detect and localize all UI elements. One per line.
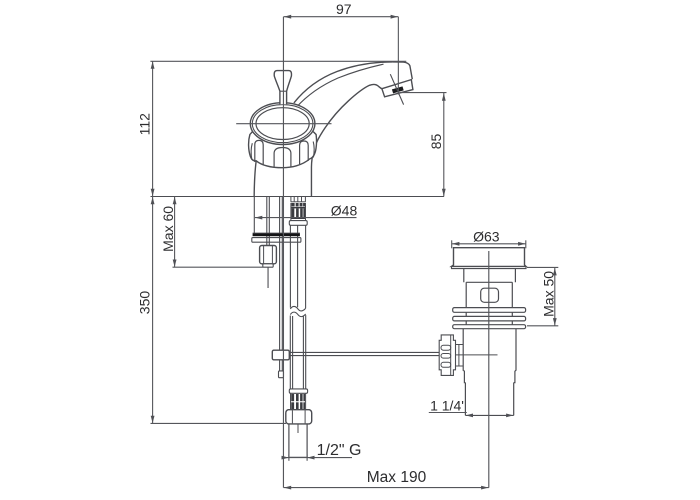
dim 97 line xyxy=(284,16,399,18)
knurl face line xyxy=(450,335,452,376)
drain flange xyxy=(452,248,527,267)
lift rod end cap xyxy=(279,371,284,378)
finger groove arch center xyxy=(274,148,291,167)
arrow dim 85 top xyxy=(442,93,446,100)
shank upper plain section xyxy=(291,197,306,202)
dim 1/2G line xyxy=(282,457,352,459)
arrow dim O63 left xyxy=(452,242,459,246)
drain lower body xyxy=(463,329,516,371)
arrow dim 1/2G right xyxy=(307,456,314,460)
fin 3 xyxy=(453,325,526,329)
supply pipe end 1/2" xyxy=(289,424,307,458)
arrow dim 1 1/4 right xyxy=(506,414,513,418)
spout underside curve C xyxy=(311,84,381,196)
svg-text:1/2" G: 1/2" G xyxy=(317,442,362,459)
shank lower collar xyxy=(289,389,307,393)
knurled coupling castle xyxy=(439,335,455,376)
body sliver xyxy=(466,321,512,325)
stud nut xyxy=(260,246,277,264)
drain step xyxy=(464,371,515,383)
partial groove left edge xyxy=(251,143,252,160)
handle rim outer ellipse xyxy=(250,103,315,145)
fin 2 xyxy=(453,316,526,321)
arrow dim Max190 left xyxy=(284,486,291,490)
overflow hole xyxy=(481,288,499,302)
aerator outlet dark square xyxy=(392,86,404,93)
knurl slot 3 xyxy=(441,362,451,367)
arrow dim Max50 bottom xyxy=(553,318,557,325)
arrow leader O48 xyxy=(255,216,262,220)
arrow dim Max60 top xyxy=(173,197,177,204)
arrow dim 112 top xyxy=(151,61,155,68)
bottom nut xyxy=(286,410,312,424)
stud nut collar xyxy=(263,264,273,267)
knurl slot 1 xyxy=(441,345,451,350)
dim Ø63 line xyxy=(452,243,526,245)
arrow dim 1 1/4 left xyxy=(466,414,473,418)
dim 85 top extension xyxy=(400,92,447,94)
shank lower thread bars xyxy=(291,394,306,409)
dim Max190 line xyxy=(284,487,489,489)
drain neck xyxy=(464,269,516,283)
under-deck: washer flange outline xyxy=(252,238,301,243)
svg-text:Max 50: Max 50 xyxy=(540,271,556,317)
lift rod lower xyxy=(279,360,281,371)
knurl connector xyxy=(456,345,464,367)
svg-text:Max 60: Max 60 xyxy=(160,206,176,252)
arrow dim Max50 top xyxy=(553,268,557,275)
drain upper body xyxy=(466,282,512,307)
aerator band xyxy=(382,80,413,97)
drain flange brim xyxy=(452,266,527,268)
dim Max50 line xyxy=(554,268,556,326)
shank tube lower (4 lines) xyxy=(289,316,291,389)
dim 85 line xyxy=(443,93,445,197)
svg-text:Ø63: Ø63 xyxy=(473,228,500,244)
arrowheads xyxy=(151,15,557,490)
knob collar line xyxy=(280,90,287,92)
spout top curve A xyxy=(294,62,393,103)
dim 97 right extension xyxy=(397,17,399,95)
arrow dim Max190 right xyxy=(481,486,488,490)
partial groove right edge xyxy=(312,142,315,158)
dim Max60 line xyxy=(174,197,176,268)
shank collar xyxy=(289,221,307,226)
rod clamp block xyxy=(272,350,289,360)
pipe break upper wave xyxy=(290,306,305,311)
knurl slot 2 xyxy=(441,354,451,359)
jet axis line xyxy=(390,74,403,104)
threaded stud xyxy=(266,197,268,246)
fin 1 xyxy=(453,308,526,313)
svg-text:1 1/4': 1 1/4' xyxy=(430,398,464,414)
handle rim middle ellipse xyxy=(252,105,313,143)
svg-text:Ø48: Ø48 xyxy=(331,202,358,218)
body sliver xyxy=(466,312,512,316)
dim Max50 extensions xyxy=(527,266,558,268)
body left edge xyxy=(254,161,256,197)
arrow dim Max60 bottom xyxy=(173,260,177,267)
spout end block xyxy=(393,62,412,79)
shank tube upper (3 lines) xyxy=(289,225,291,307)
arrow dim 350 top xyxy=(151,197,155,204)
svg-text:85: 85 xyxy=(428,134,444,150)
arrow dim O63 right xyxy=(518,242,525,246)
arrow dim 97 right xyxy=(391,15,398,19)
deck / mounting surface line xyxy=(151,196,445,198)
spout inner curve B xyxy=(296,64,383,107)
dim Max60 bottom extension xyxy=(173,266,264,268)
arrow dim 350 bottom xyxy=(151,416,155,423)
finger groove arch right xyxy=(300,141,309,164)
pop-up rod horizontal xyxy=(289,351,439,353)
leader Ø48 xyxy=(255,217,357,219)
knob on top xyxy=(274,71,291,105)
dim 350 line xyxy=(152,197,154,424)
leader 1 1/4 underline xyxy=(429,412,467,414)
top extension line (112) xyxy=(150,60,406,62)
arrow dim 112 bottom xyxy=(151,189,155,196)
dark rubber washer bar xyxy=(253,234,300,237)
shank thread crest blocks xyxy=(291,203,306,219)
dim 112 line xyxy=(152,61,154,197)
dim 350 bottom extension xyxy=(151,422,287,424)
faucet centerline xyxy=(282,17,284,488)
drain tailpiece xyxy=(465,383,513,416)
svg-text:Max 190: Max 190 xyxy=(367,469,427,486)
svg-text:350: 350 xyxy=(137,291,153,315)
svg-text:112: 112 xyxy=(137,113,153,136)
base edge projection left xyxy=(253,197,255,234)
handle rim inner ellipse xyxy=(256,108,309,140)
handle horizontal centerline xyxy=(236,123,331,125)
pipe break lower wave xyxy=(290,312,305,317)
arrow dim 1/2G left xyxy=(282,456,289,460)
rod hidden line to center xyxy=(456,354,498,356)
finger groove arch left xyxy=(255,140,263,164)
drain centerline xyxy=(488,251,490,488)
stud tail xyxy=(267,267,269,288)
handle skirt xyxy=(249,124,317,168)
arrow dim 85 bottom xyxy=(442,189,446,196)
arrow dim 97 left xyxy=(284,15,291,19)
lift rod xyxy=(279,197,281,351)
svg-text:97: 97 xyxy=(336,1,352,17)
